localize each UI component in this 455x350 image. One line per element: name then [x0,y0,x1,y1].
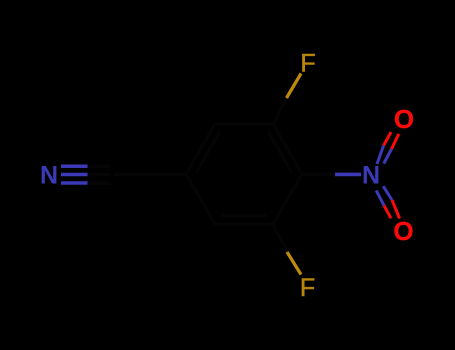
wire: C-C bond from nitrile carbon to ring [114,173,186,176]
N=O top double bond, stroke 1 red half [384,132,391,146]
benzene ring (near-black skeleton) [186,124,302,224]
bond C-F (bottom), fluorine half (orange) [287,252,301,275]
bond C-F (bottom), carbon half [273,224,287,251]
N=O top double bond, stroke 2 red half [392,134,399,149]
nitrile triple bond C#N (blue halves) [61,166,88,183]
N=O bottom double bond, stroke 2 blue half [383,186,392,200]
nitrile triple bond carbon halves (near-black) [88,166,112,183]
N=O bottom double bond, stroke 1 blue half [376,191,384,206]
N=O top double bond, stroke 2 blue half [384,149,392,164]
svg-text:F: F [300,50,315,78]
bond C-F (top), fluorine half (orange) [287,74,302,99]
N=O bottom double bond, stroke 2 red half [392,200,400,219]
svg-text:F: F [300,274,315,302]
bond C-N nitro, carbon half [302,173,335,177]
bond C-N nitro, nitrogen half (blue) [335,173,361,177]
svg-text:N: N [362,162,380,190]
svg-text:O: O [394,104,414,134]
svg-text:O: O [393,216,413,246]
svg-text:N: N [40,162,58,190]
bond C-F (top), carbon half [273,98,287,124]
aromatic inner bond lines [197,132,292,216]
N=O top double bond, stroke 1 blue half [377,146,384,165]
N=O bottom double bond, stroke 1 red half [384,206,391,219]
